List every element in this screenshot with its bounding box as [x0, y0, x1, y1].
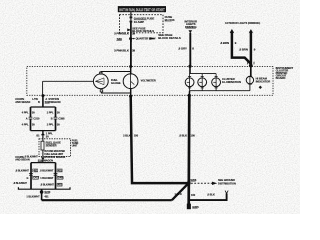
lamp drops top [188, 74, 218, 78]
label HI BEAM INDICATOR [256, 77, 271, 84]
fuel tank unit box [39, 139, 71, 157]
svg-text:3 PNK/BLK: 3 PNK/BLK [114, 32, 130, 36]
arrow into dimming wire [189, 30, 193, 33]
wire wagon ground branch [55, 163, 57, 190]
arrow exterior wire 1 [230, 29, 234, 33]
svg-text:IN TANK MOUNTED: IN TANK MOUNTED [44, 150, 65, 153]
terminal V [225, 191, 228, 194]
svg-text:.8 BLK/WHT: .8 BLK/WHT [15, 170, 29, 173]
svg-text:WAGON: WAGON [51, 100, 61, 104]
fuse block dashed box [120, 15, 164, 33]
splice S39 [116, 37, 132, 41]
label SEE FUSE BLOCK DETAILS (inside box) [127, 26, 154, 33]
wire sender into fuel gauge [43, 80, 94, 82]
label S206 [190, 178, 196, 182]
power banner HOT IN RUN [118, 6, 166, 12]
label 1 PPL 30 at tank [46, 131, 53, 138]
svg-text:.8 BLK: .8 BLK [207, 193, 215, 197]
svg-text:1 BLK: 1 BLK [175, 192, 182, 196]
connector C398 [51, 116, 65, 120]
wire ground split bus [31, 162, 56, 164]
node dimming entry dot [188, 65, 191, 68]
polarity diamond [259, 86, 262, 89]
label COUPE AND SEDAN (lower) [15, 156, 30, 162]
indicator lamp E4 [246, 76, 253, 90]
svg-text:.8 BRN: .8 BRN [220, 41, 229, 45]
svg-text:DIMMING: DIMMING [185, 25, 197, 29]
svg-text:G401: G401 [58, 177, 65, 180]
ground G305 [187, 204, 199, 210]
wire dashed to ground distribution [191, 182, 213, 184]
wire branch to body ground [189, 193, 227, 200]
label 1 PPL 30 upper right [47, 110, 61, 114]
svg-text:BLOCK DETAILS: BLOCK DETAILS [158, 36, 181, 40]
svg-text:2 BLK: 2 BLK [123, 133, 131, 137]
node ground merge splice [40, 190, 44, 194]
label .8 BLK/WHT row 3 [13, 182, 62, 186]
connector arrow into tank [41, 132, 45, 135]
svg-text:4 PPL: 4 PPL [22, 122, 29, 126]
node ground exit dot [188, 94, 191, 97]
svg-text:SEE GROUND: SEE GROUND [218, 178, 235, 182]
svg-text:BLOCK DETAILS: BLOCK DETAILS [132, 29, 154, 33]
svg-text:150: 150 [191, 193, 196, 197]
wire fuse output down to splice S39 [130, 23, 132, 43]
svg-text:.8 BLK/WHT: .8 BLK/WHT [40, 184, 54, 187]
wire coupe ground branch [30, 163, 32, 190]
label 1 BLK/WHT 451 [26, 195, 49, 198]
connector ticks ground branches [29, 174, 57, 176]
svg-text:.8 BRN: .8 BRN [239, 48, 248, 52]
label INSTRUMENT CLUSTER PRINTED CIRCUIT [276, 66, 294, 80]
svg-text:BOARD: BOARD [276, 76, 286, 80]
svg-text:UNIT: UNIT [72, 144, 78, 147]
wire diagonal to splice S206 [172, 183, 189, 200]
label 3 PNK/BLK / 39 (upper) [114, 32, 135, 36]
svg-text:451: 451 [44, 195, 49, 198]
svg-text:.8 BLK/WHT: .8 BLK/WHT [24, 155, 38, 158]
svg-text:451: 451 [33, 169, 38, 172]
label S240 [44, 190, 50, 194]
wire dimming to lamp bus [189, 66, 191, 74]
wire coupe branch lower [30, 119, 32, 130]
svg-text:L/TN: L/TN [32, 98, 38, 101]
lamp drops bottom [188, 86, 218, 90]
wire lamp top bus [190, 73, 217, 75]
svg-text:A: A [26, 117, 28, 120]
svg-text:150: 150 [191, 133, 196, 137]
wire cluster right ground down [187, 95, 190, 205]
wire lamp bus to ground exit [188, 91, 190, 96]
svg-text:1 BLK/WHT: 1 BLK/WHT [40, 177, 54, 180]
arrow exterior wire 2 [249, 29, 253, 33]
svg-text:4 PPL: 4 PPL [22, 110, 29, 114]
svg-text:SENDER: SENDER [46, 143, 57, 147]
label 4 PPL 30 lower left [22, 122, 36, 126]
wire cluster left ground down [131, 96, 189, 183]
svg-text:VOLTMETER: VOLTMETER [141, 79, 156, 83]
wire wagon branch upper [55, 107, 57, 117]
instrument cluster dashed box [27, 67, 273, 96]
label GAUGES FUSE [134, 16, 155, 24]
wire exterior 2 [250, 32, 253, 64]
svg-text:451: 451 [58, 184, 63, 187]
label wire tags near split [32, 98, 47, 104]
svg-text:B: B [51, 117, 53, 120]
label 4 PPL 30 upper left [22, 110, 36, 114]
branch arrow to cluster details [132, 37, 156, 41]
svg-text:G: G [26, 177, 28, 180]
svg-text:.8 BLK/WHT: .8 BLK/WHT [13, 182, 27, 185]
svg-text:1 BLK/WHT: 1 BLK/WHT [26, 195, 40, 198]
label 1 PPL 30 lower right [47, 122, 61, 126]
wire gauge top branch [101, 72, 131, 74]
wire sender drop below cluster [42, 96, 44, 107]
label .8 BRN / 9 (wire 2) [239, 48, 256, 52]
fuel sender resistor [41, 139, 44, 157]
label tank note [44, 150, 65, 156]
svg-text:AND SEDAN: AND SEDAN [15, 100, 30, 104]
svg-text:HOT IN RUN, BULB TEST OR START: HOT IN RUN, BULB TEST OR START [119, 8, 165, 12]
svg-text:39: 39 [132, 49, 136, 53]
svg-text:BLOCK: BLOCK [165, 18, 176, 22]
label STATION WAGON (lower) [38, 156, 66, 162]
svg-text:39: 39 [132, 32, 136, 36]
fuel gauge G1 [93, 72, 108, 92]
svg-text:.8 GRY: .8 GRY [178, 47, 187, 51]
svg-text:.8 BLK: .8 BLK [179, 133, 187, 137]
svg-text:C398: C398 [58, 116, 65, 120]
wire ground merge bus [18, 187, 70, 189]
illumination lamp E1 [185, 78, 194, 87]
node gauge ground exit dot [129, 95, 132, 98]
bold arrow SEE PAGE [150, 33, 181, 40]
connector arrow out of tank [41, 157, 45, 160]
illumination lamp E3 [212, 78, 221, 87]
fuse GAUGES FUSE 10 AMP [130, 17, 133, 23]
wire from banner to fuse block [130, 12, 132, 17]
wire tank ground run [42, 199, 172, 201]
wire wagon branch lower [55, 119, 57, 130]
svg-text:1 PPL: 1 PPL [47, 110, 54, 114]
label 8 GRY / 8 [178, 47, 194, 51]
label FUEL GAUGE [111, 78, 121, 85]
wire from entry to indicator lamp [250, 66, 252, 77]
voltmeter G2 [123, 74, 138, 89]
svg-text:451: 451 [58, 169, 63, 172]
wire coupe branch upper [30, 107, 32, 117]
svg-text:AND SEDAN: AND SEDAN [15, 159, 30, 162]
label FUEL TANK UNIT [72, 139, 79, 147]
label .8 BLK 150 left [123, 133, 139, 137]
wire lamp bottom bus [190, 90, 250, 92]
svg-text:C417: C417 [33, 177, 39, 180]
svg-text:DISTRIBUTION: DISTRIBUTION [218, 181, 236, 185]
label INTERIOR LIGHTS DIMMING [184, 20, 197, 29]
label STATION WAGON (upper) [45, 97, 61, 104]
node sender exit dot [41, 94, 44, 97]
connector ticks at cluster entry [248, 62, 254, 65]
label SEE GROUND DISTRIBUTION [218, 178, 236, 185]
label .8 BRN / 9 (wire 1) [220, 41, 237, 45]
svg-text:1 PPL: 1 PPL [47, 122, 54, 126]
svg-text:INDICATOR: INDICATOR [256, 79, 271, 83]
wire feed into gauges [130, 67, 132, 75]
svg-text:150: 150 [134, 133, 139, 137]
illumination lamp E2 [198, 78, 207, 87]
node splice S206 [187, 181, 191, 185]
svg-text:.8 BLK/WHT: .8 BLK/WHT [40, 170, 54, 173]
node dimmer entry dot [249, 64, 253, 68]
label FUEL GAGE SENDER [46, 140, 61, 147]
label COUPE AND SEDAN (upper) [15, 97, 30, 104]
label FUSE BLOCK [165, 15, 176, 22]
wire gauge bottom branch [101, 92, 130, 93]
wire exterior 1 [232, 32, 251, 64]
wire split bus upper [31, 106, 56, 108]
svg-text:ILLUMINATION: ILLUMINATION [222, 80, 241, 84]
svg-text:C210: C210 [33, 116, 40, 120]
wire interior dimming feed [189, 33, 191, 66]
connector C210 [26, 116, 40, 120]
label 3 PNK/BLK / 39 (lower) [114, 49, 135, 53]
wire merge drop [42, 131, 44, 133]
svg-text:3 PNK/BLK: 3 PNK/BLK [114, 49, 130, 53]
wire splice down to cluster [130, 39, 132, 67]
label .8 BLK/WHT 451 row 1 [15, 169, 62, 173]
svg-text:B: B [38, 101, 40, 104]
wire merge bus lower [31, 130, 56, 132]
svg-text:GAUGE: GAUGE [111, 81, 121, 85]
wire gauges to ground exit [130, 89, 132, 97]
svg-text:EXTERIOR LIGHTS (DIMMING): EXTERIOR LIGHTS (DIMMING) [225, 22, 260, 25]
wire sender drop inside cluster [42, 81, 44, 95]
label CLUSTER ILLUMINATION [222, 77, 241, 84]
svg-text:10 AMP: 10 AMP [134, 20, 144, 24]
node feed entry dot [129, 65, 132, 68]
label C417 G401 row 2 [26, 176, 64, 180]
label .8 BLK 150 right [179, 133, 196, 137]
svg-text:WAGON: WAGON [44, 159, 54, 162]
